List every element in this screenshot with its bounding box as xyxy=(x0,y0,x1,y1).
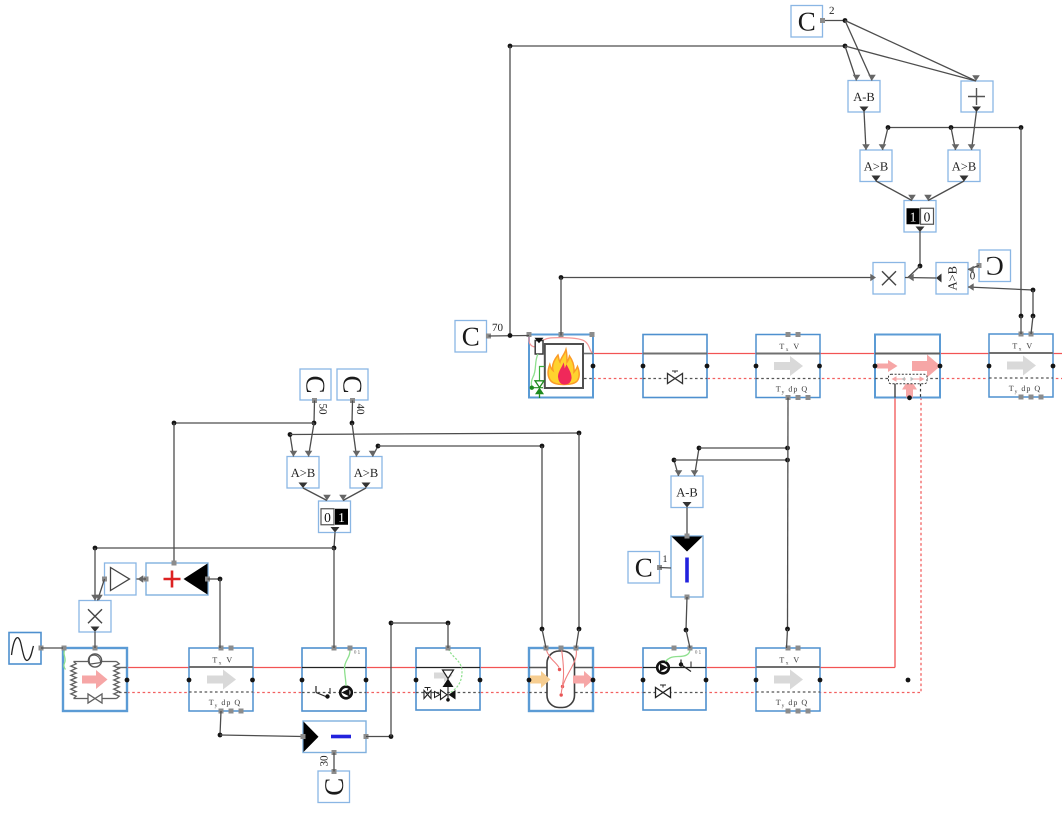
svg-text:C: C xyxy=(462,321,480,351)
svg-text:C: C xyxy=(301,375,331,393)
svg-text:0: 0 xyxy=(924,209,931,224)
svg-text:0 1: 0 1 xyxy=(354,650,361,655)
svg-text:A>B: A>B xyxy=(291,466,315,480)
svg-text:C: C xyxy=(635,552,653,582)
svg-text:50: 50 xyxy=(317,404,329,416)
svg-text:0: 0 xyxy=(969,269,975,281)
svg-text:40: 40 xyxy=(354,404,366,416)
svg-text:30: 30 xyxy=(319,755,331,767)
svg-text:1: 1 xyxy=(663,554,668,565)
svg-text:0: 0 xyxy=(324,510,331,525)
svg-text:1: 1 xyxy=(910,209,917,224)
svg-text:0 1: 0 1 xyxy=(695,650,702,655)
svg-text:2: 2 xyxy=(829,5,835,17)
svg-text:A>B: A>B xyxy=(946,266,960,290)
svg-text:C: C xyxy=(338,375,368,393)
svg-text:A>B: A>B xyxy=(354,466,378,480)
svg-text:A-B: A-B xyxy=(853,90,875,104)
svg-text:C: C xyxy=(319,778,349,796)
svg-text:A-B: A-B xyxy=(676,485,698,499)
svg-text:C: C xyxy=(798,6,816,36)
svg-text:A>B: A>B xyxy=(864,159,888,173)
svg-text:1: 1 xyxy=(338,510,345,525)
svg-text:A>B: A>B xyxy=(952,159,976,173)
svg-text:C: C xyxy=(986,251,1004,281)
svg-text:70: 70 xyxy=(492,322,504,334)
